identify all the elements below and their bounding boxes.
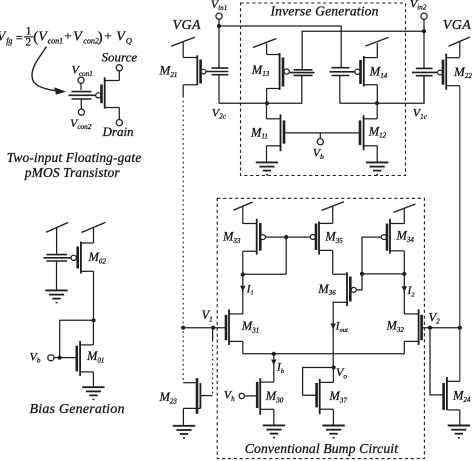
transistor M32 xyxy=(386,309,422,345)
svg-text:Bias Generation: Bias Generation xyxy=(30,402,125,417)
wire V2 xyxy=(422,327,460,329)
transistor M14 xyxy=(355,56,388,87)
terminal Vcon1 xyxy=(78,77,84,90)
wire M32 source down to tail xyxy=(403,341,405,353)
transistor M13 xyxy=(251,53,289,90)
wire M31 source down to tail xyxy=(242,341,244,353)
wire V1 xyxy=(183,327,226,329)
svg-text:Vb: Vb xyxy=(30,349,41,364)
dashed box Conventional Bump Circuit xyxy=(217,198,424,458)
label V2 xyxy=(429,310,441,325)
vdd slash above bias cap xyxy=(46,223,68,254)
terminal Vcon2 xyxy=(78,109,84,115)
ground under bias cap xyxy=(45,290,67,302)
node Vin1 xyxy=(217,24,221,28)
terminal Drain xyxy=(116,120,122,126)
capacitor M13 inputs xyxy=(290,70,315,76)
svg-text:M21: M21 xyxy=(159,63,178,79)
label Vb inverse box xyxy=(313,146,324,161)
svg-text:Iout: Iout xyxy=(335,321,348,334)
svg-text:M32: M32 xyxy=(386,319,405,334)
svg-text:VGA: VGA xyxy=(173,18,201,33)
svg-text:I2: I2 xyxy=(407,285,416,298)
svg-text:Ib: Ib xyxy=(276,362,285,375)
wire M33 drain to I1 xyxy=(243,251,286,274)
label Vin2 xyxy=(410,0,427,12)
svg-text:Inverse Generation: Inverse Generation xyxy=(270,4,379,19)
wire V2c xyxy=(219,75,302,103)
wire Vb to M01 gate xyxy=(54,357,77,359)
svg-text:M31: M31 xyxy=(241,319,259,334)
svg-text:V1c: V1c xyxy=(413,106,428,121)
node V1 xyxy=(211,326,215,330)
svg-text:fg: fg xyxy=(6,36,12,45)
ground under M37 xyxy=(322,426,344,438)
wire Vin1 down to M21 cap xyxy=(218,26,220,68)
title Conventional Bump Circuit xyxy=(245,441,399,456)
svg-text:Drain: Drain xyxy=(102,124,134,139)
svg-text:): ) xyxy=(98,30,103,46)
wire M37 drain up to Vo xyxy=(332,369,334,382)
ground under M23 xyxy=(173,426,195,438)
label Vcon2 xyxy=(70,116,92,131)
transistor M30 xyxy=(257,378,284,415)
wire M35 drain to M36 source xyxy=(332,250,334,274)
current arrow I1 xyxy=(240,275,254,314)
wire V1c xyxy=(340,76,424,103)
svg-text:+: + xyxy=(64,28,71,43)
wire M22 cap bottom to V1c xyxy=(423,76,425,104)
transistor M36 xyxy=(317,272,356,306)
node I2 xyxy=(402,272,406,276)
svg-text:M01: M01 xyxy=(86,349,104,364)
svg-text:Vcon2: Vcon2 xyxy=(70,116,92,131)
node Vin2 xyxy=(422,29,426,33)
svg-text:V: V xyxy=(73,30,83,45)
wire M11 source to ground xyxy=(266,146,268,162)
wire M02 drain to node xyxy=(93,271,95,320)
node V2 rail xyxy=(458,326,462,330)
svg-text:Vcon1: Vcon1 xyxy=(72,63,93,78)
svg-text:Vb: Vb xyxy=(313,146,324,161)
node V1 rail xyxy=(181,326,185,330)
node M36 gate xyxy=(360,272,364,276)
wire V1 down to M23 drain xyxy=(212,328,214,396)
wire V2 down to M24 gate xyxy=(430,328,444,395)
svg-text:M14: M14 xyxy=(369,65,388,80)
transistor M34 xyxy=(381,219,414,254)
wire Vo diode connection to M37 gate xyxy=(303,368,334,396)
wire M14 cap bottom to V1c xyxy=(339,76,341,104)
svg-text:+: + xyxy=(104,28,111,43)
svg-text:pMOS Transistor: pMOS Transistor xyxy=(24,165,121,180)
pMOS transistor legend xyxy=(96,71,120,119)
terminal Vin1 xyxy=(216,13,222,24)
wire M11 drain up to V2c node xyxy=(266,103,268,119)
wire M21 drain rail down to V1 and M23 gate xyxy=(182,85,184,383)
label Vcon1 xyxy=(72,63,93,78)
wire up to M34 gate xyxy=(362,237,381,274)
svg-text:Vo: Vo xyxy=(336,365,347,380)
current arrow Ib xyxy=(271,354,285,382)
ground under M01 xyxy=(82,387,104,399)
node M01 drain-gate junction xyxy=(92,318,96,322)
wire mirror node to M34 drain node xyxy=(362,273,404,275)
svg-text:M33: M33 xyxy=(222,230,241,245)
vdd slash M33 xyxy=(233,202,253,224)
terminal Vin2 xyxy=(421,13,427,29)
wire Vin2 rail to M13 cap xyxy=(302,31,424,69)
ground under M24 xyxy=(448,426,470,438)
svg-text:V2: V2 xyxy=(429,310,441,325)
transistor M12 xyxy=(360,115,387,150)
caption Two-input Floating-gate pMOS Transistor xyxy=(7,150,142,180)
svg-text:M11: M11 xyxy=(250,125,268,140)
svg-text:M13: M13 xyxy=(251,63,270,78)
svg-text:con1: con1 xyxy=(48,36,64,45)
svg-text:Vh: Vh xyxy=(224,388,235,403)
svg-text:V2c: V2c xyxy=(212,105,227,120)
wire Vh to M30 gate xyxy=(245,395,258,397)
wire M33 diode connection down xyxy=(285,237,287,274)
terminal Vb bias xyxy=(48,355,54,361)
label V2c xyxy=(212,105,227,120)
capacitor M14 inputs xyxy=(330,68,355,76)
svg-text:Vin1: Vin1 xyxy=(211,0,228,12)
label VGA left xyxy=(173,18,201,33)
svg-text:M30: M30 xyxy=(265,389,284,404)
ground under M30 xyxy=(263,425,285,437)
node M33 gate drain tie xyxy=(284,235,288,239)
label V1 xyxy=(202,308,213,323)
arrow from equation to floating gate xyxy=(32,47,66,95)
svg-text:Two-input Floating-gate: Two-input Floating-gate xyxy=(7,150,142,165)
svg-text:=: = xyxy=(16,30,23,45)
capacitor M21 inputs xyxy=(206,68,228,75)
label Vh xyxy=(224,388,235,403)
transistor M31 xyxy=(226,309,259,345)
dashed box Inverse Generation xyxy=(241,3,406,176)
capacitor legend input caps xyxy=(69,92,96,109)
transistor M23 xyxy=(159,378,213,414)
wire Vin1 rail to M14 cap xyxy=(219,26,341,68)
vdd slash M34 xyxy=(394,204,416,224)
vdd slash M35 xyxy=(322,202,345,224)
label Drain xyxy=(102,124,134,139)
ground under M12 xyxy=(366,162,388,174)
wire M13 drain to V2c node xyxy=(266,89,268,104)
node V2 xyxy=(428,326,432,330)
vdd slash M13 xyxy=(253,39,277,55)
wire M36 gate up to mirror node xyxy=(356,274,362,290)
node Vo xyxy=(332,365,336,369)
svg-text:Source: Source xyxy=(102,50,138,65)
transistor M33 xyxy=(222,219,265,255)
ground under M11 xyxy=(256,162,278,174)
current arrow I2 xyxy=(402,274,416,314)
svg-text:M22: M22 xyxy=(453,64,472,80)
svg-text:Q: Q xyxy=(126,36,132,46)
wire M33 gate to M35 gate xyxy=(265,236,310,238)
transistor M11 xyxy=(250,114,284,151)
svg-text:M24: M24 xyxy=(452,389,471,404)
svg-text:2: 2 xyxy=(25,37,31,49)
current arrow Iout xyxy=(331,302,348,367)
wire M34 drain down xyxy=(403,251,405,274)
svg-text:M23: M23 xyxy=(159,390,178,405)
wire M24 source to ground xyxy=(459,410,461,425)
transistor M35 xyxy=(310,222,343,255)
transistor M02 xyxy=(71,222,106,273)
equation Vfg = 1/2(Vcon1+Vcon2) + VQ xyxy=(0,26,132,49)
transistor M24 xyxy=(444,377,471,410)
transistor M21 xyxy=(159,55,206,85)
wire M37 source to ground xyxy=(332,409,334,425)
terminal Source xyxy=(116,65,122,71)
wire M11 M12 gate line xyxy=(284,132,360,134)
svg-text:M02: M02 xyxy=(88,250,107,265)
label VGA right xyxy=(443,18,471,33)
svg-text:Vin2: Vin2 xyxy=(410,0,427,12)
svg-text:con2: con2 xyxy=(83,36,99,45)
svg-text:I1: I1 xyxy=(246,283,254,296)
svg-text:M34: M34 xyxy=(396,229,415,244)
capacitor M22 inputs xyxy=(412,68,438,75)
vdd slash M14 xyxy=(366,37,389,57)
svg-text:M12: M12 xyxy=(368,124,387,139)
caption Bias Generation xyxy=(30,402,125,417)
wire Vin2 down to M22 cap xyxy=(423,31,425,68)
node Vb gate junction xyxy=(58,356,62,360)
transistor M22 xyxy=(438,54,473,90)
wire M30 source to ground xyxy=(273,409,275,425)
node V1c xyxy=(375,101,379,105)
wire M22 drain rail down to V2 and M24 xyxy=(459,86,461,382)
node V2c xyxy=(265,101,269,105)
label V1c xyxy=(413,106,428,121)
wire M12 source to ground xyxy=(376,146,378,162)
label Vin1 xyxy=(211,0,228,12)
svg-text:M35: M35 xyxy=(324,230,343,245)
node Ib xyxy=(272,352,276,356)
wire M12 drain up to V1c node xyxy=(376,103,378,119)
vdd slash M22 xyxy=(449,37,471,57)
wire M23 source to ground xyxy=(182,408,184,425)
svg-text:V: V xyxy=(116,30,126,45)
label Vb bias xyxy=(30,349,41,364)
svg-text:VGA: VGA xyxy=(443,18,471,33)
wire feedback to M01 gate xyxy=(60,320,94,357)
terminal Vb inverse box xyxy=(317,133,323,145)
label Source xyxy=(102,50,138,65)
wire M21 cap to V2c xyxy=(218,75,220,104)
svg-text:V1: V1 xyxy=(202,308,213,323)
transistor M01 xyxy=(77,322,105,387)
svg-text:M36: M36 xyxy=(317,282,336,297)
svg-text:M37: M37 xyxy=(328,389,347,404)
terminal Vh xyxy=(239,393,244,398)
node I1 xyxy=(241,272,245,276)
svg-text:Conventional Bump Circuit: Conventional Bump Circuit xyxy=(245,441,399,456)
transistor M37 xyxy=(317,379,348,414)
wire tail M31 M32 sources xyxy=(243,353,404,355)
title Inverse Generation xyxy=(270,4,379,19)
capacitor bias floating gate xyxy=(44,255,72,290)
label Vo xyxy=(336,365,347,380)
wire M14 drain to V1c node xyxy=(376,85,378,104)
vdd slash M21 xyxy=(171,37,195,57)
